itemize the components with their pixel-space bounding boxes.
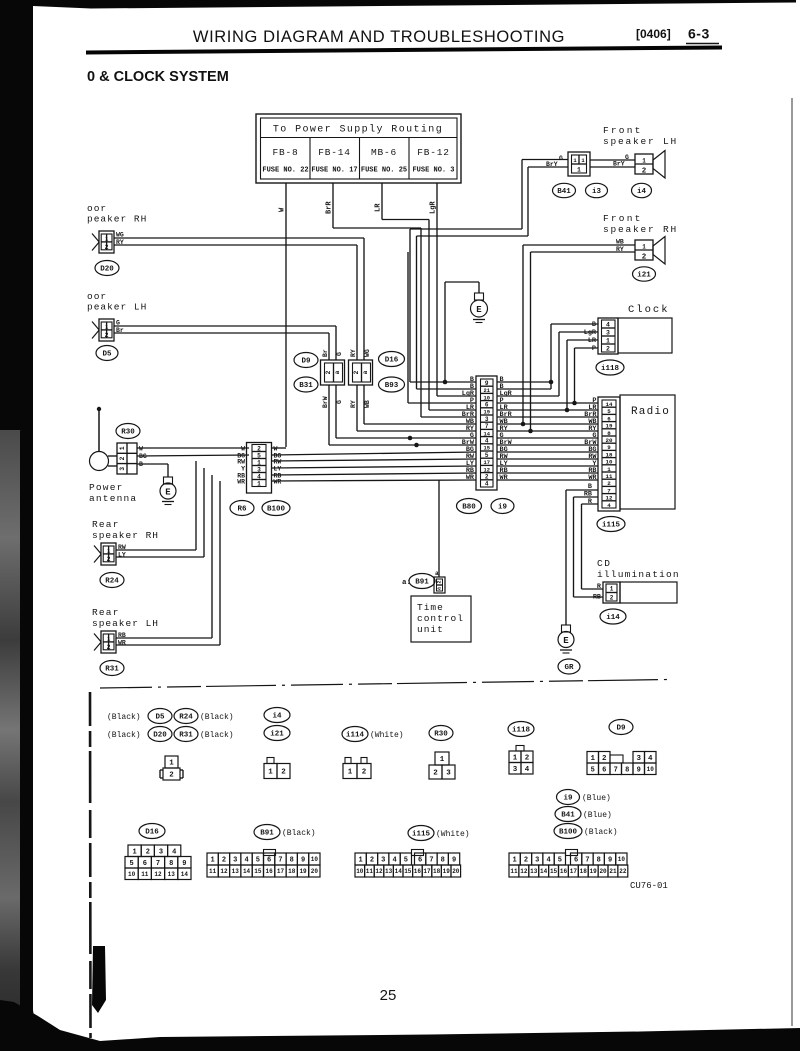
- connector i21 + speaker: [635, 240, 653, 260]
- svg-text:speaker LH: speaker LH: [603, 136, 678, 147]
- svg-text:3: 3: [446, 770, 451, 778]
- svg-text:1: 1: [513, 857, 517, 865]
- svg-text:20: 20: [311, 868, 319, 875]
- svg-text:FUSE NO. 22: FUSE NO. 22: [262, 167, 308, 175]
- svg-text:6: 6: [143, 860, 147, 868]
- connector D16 / B93: [349, 360, 373, 385]
- svg-text:7: 7: [485, 423, 489, 430]
- svg-text:1: 1: [610, 586, 614, 593]
- wire B radio to ground: [566, 489, 598, 491]
- svg-text:5: 5: [256, 857, 260, 865]
- svg-text:3: 3: [513, 766, 518, 774]
- svg-text:D20: D20: [153, 732, 167, 740]
- wire P to clock and radio: [497, 402, 598, 404]
- wire BG B80 to radio: [497, 451, 598, 453]
- connector D5: [96, 346, 118, 361]
- svg-text:i115: i115: [602, 522, 621, 530]
- svg-text:3: 3: [233, 857, 237, 865]
- svg-text:20: 20: [599, 868, 607, 875]
- svg-text:12: 12: [220, 868, 228, 875]
- junction G row: [408, 436, 413, 441]
- svg-text:8: 8: [625, 766, 629, 774]
- wire P to time control unit: [438, 480, 440, 577]
- pinout connector D16: [128, 845, 141, 857]
- wire B row1: [410, 381, 476, 383]
- svg-text:B91: B91: [415, 579, 429, 587]
- wire LgR from fuse FB-12: [436, 183, 438, 396]
- connector R31: [100, 661, 124, 676]
- svg-text:2: 2: [642, 168, 647, 176]
- svg-text:8: 8: [441, 857, 445, 865]
- wire G below D9: [335, 385, 337, 438]
- svg-text:2: 2: [524, 857, 528, 865]
- wire LR from fuse MB-6: [381, 183, 383, 220]
- svg-text:D5: D5: [155, 714, 165, 722]
- svg-text:2: 2: [433, 770, 438, 778]
- svg-text:3: 3: [159, 848, 163, 856]
- wire BrW B80 to radio: [497, 444, 598, 446]
- svg-text:WR: WR: [237, 479, 245, 486]
- svg-text:2: 2: [485, 474, 489, 481]
- power supply routing table: [256, 114, 461, 183]
- svg-text:4: 4: [607, 502, 611, 509]
- svg-text:1: 1: [211, 857, 215, 865]
- svg-text:G: G: [336, 400, 343, 404]
- svg-text:FUSE NO. 3: FUSE NO. 3: [412, 167, 454, 175]
- svg-text:2: 2: [607, 480, 611, 487]
- svg-text:3: 3: [485, 416, 489, 423]
- svg-text:8: 8: [607, 430, 611, 437]
- connector i21: [633, 267, 656, 281]
- wire WB below D16: [363, 385, 365, 424]
- svg-text:17: 17: [483, 460, 489, 466]
- svg-text:5: 5: [591, 766, 595, 774]
- svg-text:2: 2: [257, 445, 261, 452]
- svg-text:GR: GR: [564, 664, 574, 672]
- wire W antenna: [137, 447, 249, 449]
- wire RY B80 to radio: [497, 430, 598, 432]
- svg-text:5: 5: [129, 860, 133, 868]
- svg-text:15: 15: [404, 868, 412, 875]
- clock connector pins: [598, 318, 618, 354]
- svg-text:6: 6: [485, 402, 489, 409]
- wire BrR from fuse FB-14: [332, 183, 334, 228]
- svg-text:LgR: LgR: [430, 201, 438, 214]
- svg-text:25: 25: [380, 987, 397, 1004]
- scan artifact: top edge black strip: [33, 0, 796, 9]
- wires front speaker RH to bus: [523, 244, 635, 246]
- pinout connector B91: [207, 853, 218, 865]
- svg-text:R31: R31: [105, 666, 119, 674]
- svg-text:15: 15: [254, 868, 262, 875]
- connector i4 + speaker: [635, 154, 653, 174]
- svg-text:a: a: [436, 587, 442, 590]
- svg-text:14: 14: [540, 868, 548, 875]
- wire WB row from D16: [364, 423, 476, 425]
- svg-text:11: 11: [366, 868, 374, 875]
- svg-text:18: 18: [606, 451, 613, 458]
- svg-text:RY: RY: [350, 349, 357, 357]
- svg-text:2: 2: [119, 456, 126, 460]
- scan artifact: left black margin bar: [0, 0, 33, 436]
- svg-text:FB-14: FB-14: [318, 147, 351, 158]
- svg-text:9: 9: [607, 444, 611, 451]
- svg-text:12: 12: [375, 868, 383, 875]
- svg-text:1: 1: [513, 754, 518, 762]
- wire B to clock: [497, 381, 551, 383]
- svg-text:B91: B91: [260, 830, 274, 838]
- svg-text:2: 2: [222, 857, 226, 865]
- svg-text:(Black): (Black): [200, 731, 234, 740]
- wire LY row R6 to B80: [272, 466, 476, 468]
- svg-text:2: 2: [362, 769, 367, 777]
- svg-text:14: 14: [395, 868, 403, 875]
- wire LgR to clock: [497, 395, 559, 397]
- pinout connector i118: [516, 746, 524, 752]
- svg-text:1: 1: [359, 857, 363, 865]
- svg-text:D5: D5: [102, 351, 112, 359]
- svg-text:antenna: antenna: [89, 493, 137, 504]
- svg-text:3: 3: [606, 330, 610, 337]
- svg-text:G: G: [625, 154, 629, 161]
- svg-text:W: W: [139, 446, 143, 453]
- dash-dot separator line: [100, 680, 668, 689]
- svg-text:BrR: BrR: [326, 201, 334, 214]
- svg-text:BrY: BrY: [613, 161, 625, 168]
- svg-text:19: 19: [443, 868, 451, 875]
- svg-text:13: 13: [232, 868, 240, 875]
- radio unit: [620, 395, 675, 509]
- svg-text:22: 22: [619, 868, 627, 875]
- wire WR rear speaker LH: [116, 644, 220, 646]
- svg-text:D16: D16: [385, 357, 399, 365]
- svg-text:unit: unit: [417, 624, 444, 635]
- connector i115: [597, 517, 625, 532]
- svg-text:To Power Supply Routing: To Power Supply Routing: [273, 124, 443, 136]
- svg-text:R24: R24: [179, 714, 193, 722]
- svg-text:6: 6: [418, 857, 422, 865]
- svg-text:8: 8: [290, 857, 294, 865]
- svg-text:2: 2: [525, 754, 530, 762]
- connector labels B80 i9: [457, 499, 482, 514]
- connector i14: [600, 609, 626, 624]
- wire WR row R6 to B80: [272, 480, 476, 481]
- svg-text:MB-6: MB-6: [371, 147, 397, 158]
- pinout connector B41/B100/i9: [509, 853, 520, 865]
- pinout connector i114: [345, 758, 351, 764]
- wire B antenna to ground: [137, 463, 168, 465]
- connector B41: [553, 183, 576, 197]
- svg-text:i9: i9: [498, 504, 508, 512]
- svg-text:10: 10: [311, 856, 319, 863]
- svg-text:2: 2: [642, 254, 647, 262]
- ground name GR: [558, 659, 580, 674]
- svg-text:G: G: [336, 352, 343, 356]
- pinout connector D5/D20/R24/R31: [165, 756, 178, 768]
- svg-text:6: 6: [267, 857, 271, 865]
- header rule: [86, 46, 722, 55]
- svg-text:4: 4: [392, 857, 396, 865]
- wire R radio to CD illumination: [582, 503, 599, 505]
- svg-text:14: 14: [181, 871, 189, 878]
- svg-text:2: 2: [281, 769, 286, 777]
- svg-text:a: a: [435, 570, 439, 577]
- scan artifact: torn page edge line: [89, 692, 92, 1038]
- svg-text:WR: WR: [588, 474, 597, 482]
- pinout connector i4/i21: [267, 758, 274, 764]
- svg-text:P: P: [592, 345, 596, 353]
- scan artifact: bottom black band: [0, 1000, 800, 1051]
- svg-text:5: 5: [485, 452, 489, 459]
- svg-text:15: 15: [550, 868, 558, 875]
- svg-text:19: 19: [606, 423, 613, 430]
- svg-text:WR: WR: [466, 474, 475, 482]
- wire RW rear speaker RH: [116, 549, 196, 551]
- wire RB radio to CD illumination: [574, 496, 599, 498]
- svg-text:D20: D20: [100, 266, 114, 274]
- svg-text:B100: B100: [559, 829, 578, 837]
- svg-text:2: 2: [606, 346, 610, 353]
- svg-text:a: a: [362, 370, 369, 374]
- svg-text:(Black): (Black): [107, 713, 141, 722]
- connector i118: [596, 360, 624, 375]
- svg-text:Front: Front: [603, 125, 643, 136]
- svg-text:7: 7: [156, 860, 160, 868]
- connector B80 / i9: [476, 376, 497, 490]
- junction BrW row: [414, 443, 419, 448]
- svg-text:2: 2: [146, 848, 150, 856]
- pinout connector i115: [355, 853, 366, 865]
- pinout connector R30: [435, 752, 449, 765]
- svg-text:17: 17: [277, 868, 285, 875]
- svg-text:16: 16: [266, 868, 274, 875]
- svg-text:i9: i9: [563, 795, 573, 803]
- wire B row2: [417, 388, 477, 390]
- svg-text:2: 2: [610, 595, 614, 602]
- svg-text:i114: i114: [346, 732, 365, 740]
- wire P row: [408, 402, 476, 404]
- wire BG antenna: [137, 455, 249, 456]
- svg-text:2: 2: [370, 857, 374, 865]
- svg-text:1: 1: [577, 167, 581, 174]
- svg-text:6: 6: [574, 857, 578, 865]
- connector R24: [100, 573, 124, 588]
- svg-text:1: 1: [268, 769, 273, 777]
- svg-text:20: 20: [606, 437, 613, 444]
- svg-text:LgR: LgR: [584, 329, 597, 337]
- connector D9 / B31: [321, 360, 345, 385]
- svg-text:speaker RH: speaker RH: [603, 224, 678, 235]
- svg-text:FB-8: FB-8: [272, 147, 298, 158]
- svg-text:19: 19: [483, 410, 489, 416]
- svg-text:i21: i21: [637, 272, 651, 280]
- svg-text:oor: oor: [87, 291, 107, 302]
- svg-text:2: 2: [353, 370, 360, 374]
- svg-text:1: 1: [169, 760, 174, 768]
- svg-text:(Blue): (Blue): [582, 794, 611, 803]
- scan artifact: right page edge line: [791, 98, 793, 1026]
- svg-text:11: 11: [141, 871, 149, 878]
- svg-text:1: 1: [348, 769, 353, 777]
- svg-text:(White): (White): [436, 830, 470, 839]
- svg-text:16: 16: [560, 868, 568, 875]
- svg-text:(Black): (Black): [107, 731, 141, 740]
- wire G row from D9: [336, 437, 476, 439]
- junction front speaker RH WB: [521, 422, 526, 427]
- svg-text:3: 3: [535, 857, 539, 865]
- svg-text:2: 2: [107, 556, 111, 563]
- svg-text:12: 12: [520, 868, 528, 875]
- wire W stub B100 to fuse feed: [272, 447, 286, 449]
- svg-text:W: W: [274, 446, 278, 453]
- svg-text:i115: i115: [412, 831, 431, 839]
- svg-text:7: 7: [585, 857, 589, 865]
- svg-text:WR: WR: [274, 479, 282, 486]
- svg-text:9: 9: [637, 766, 641, 774]
- svg-text:B41: B41: [561, 812, 575, 820]
- ground E antenna: [164, 477, 173, 484]
- svg-text:LY: LY: [274, 466, 282, 473]
- svg-text:6: 6: [607, 415, 611, 422]
- svg-text:4: 4: [485, 438, 489, 445]
- wire LY B80 to radio: [497, 465, 598, 467]
- svg-text:WG: WG: [364, 349, 371, 357]
- wire BrR row: [421, 416, 476, 418]
- svg-text:2: 2: [169, 772, 174, 780]
- svg-text:1: 1: [642, 158, 646, 165]
- svg-text:peaker RH: peaker RH: [87, 214, 147, 225]
- svg-text:Time: Time: [417, 602, 444, 613]
- wire BrW row from D9: [329, 444, 476, 446]
- svg-text:B31: B31: [299, 382, 313, 390]
- svg-text:illumination: illumination: [597, 569, 680, 580]
- svg-text:speaker LH: speaker LH: [92, 618, 159, 629]
- svg-text:B93: B93: [385, 382, 399, 390]
- svg-text:E: E: [563, 636, 569, 646]
- svg-text:(White): (White): [370, 731, 404, 740]
- svg-text:2: 2: [105, 332, 109, 339]
- svg-text:1: 1: [119, 446, 126, 450]
- svg-text:B: B: [592, 321, 596, 329]
- wire LR row: [429, 409, 476, 411]
- svg-text:11: 11: [606, 473, 613, 480]
- svg-text:10: 10: [128, 871, 136, 878]
- svg-text:1: 1: [590, 755, 595, 763]
- svg-text:4: 4: [257, 473, 261, 480]
- svg-text:17: 17: [570, 868, 578, 875]
- svg-text:3: 3: [381, 857, 385, 865]
- svg-text:4: 4: [606, 322, 610, 329]
- svg-text:B100: B100: [267, 506, 286, 514]
- svg-text:18: 18: [580, 868, 588, 875]
- svg-text:i14: i14: [606, 614, 620, 622]
- svg-text:11: 11: [209, 868, 217, 875]
- svg-text:1: 1: [642, 244, 646, 251]
- svg-text:RW: RW: [237, 459, 245, 466]
- svg-text:19: 19: [590, 868, 598, 875]
- svg-text:13: 13: [168, 871, 176, 878]
- wires front speaker LH to bus: [522, 159, 568, 161]
- svg-text:1: 1: [607, 466, 611, 473]
- wire Br door speaker LH: [114, 332, 329, 334]
- svg-text:2: 2: [325, 370, 332, 374]
- svg-text:i3: i3: [592, 188, 602, 196]
- svg-text:3: 3: [636, 755, 641, 763]
- svg-text:9: 9: [452, 857, 456, 865]
- svg-text:7: 7: [614, 766, 618, 774]
- connector D20: [95, 261, 119, 276]
- power antenna connector pins: [117, 443, 137, 474]
- svg-text:WIRING DIAGRAM AND TROUBLESHOO: WIRING DIAGRAM AND TROUBLESHOOTING: [193, 28, 565, 46]
- svg-text:18: 18: [433, 868, 441, 875]
- svg-text:5: 5: [558, 857, 562, 865]
- svg-text:2: 2: [602, 755, 607, 763]
- svg-text:1: 1: [257, 459, 261, 466]
- ground E below radio: [562, 625, 571, 632]
- svg-text:oor: oor: [87, 203, 107, 214]
- svg-text:Y: Y: [241, 466, 245, 473]
- svg-text:6: 6: [602, 766, 606, 774]
- svg-text:R30: R30: [434, 731, 448, 739]
- wire RY below D16: [356, 385, 358, 431]
- svg-text:20: 20: [452, 868, 460, 875]
- wire BrR B80 to radio: [497, 416, 598, 418]
- svg-text:E: E: [165, 488, 171, 498]
- time control unit box: [411, 596, 471, 642]
- wire LgR row: [437, 395, 476, 397]
- connector B41/i3 pair: [568, 152, 590, 176]
- svg-text:4: 4: [172, 848, 176, 856]
- svg-text:9: 9: [608, 857, 612, 865]
- connector i3: [586, 183, 608, 197]
- svg-text:i4: i4: [272, 713, 282, 721]
- connector R6 / B100: [247, 443, 272, 494]
- svg-text:E: E: [476, 305, 482, 315]
- svg-text:(Black): (Black): [282, 829, 316, 838]
- power antenna: [97, 407, 101, 411]
- svg-text:4: 4: [485, 481, 489, 488]
- svg-text:Clock: Clock: [628, 304, 670, 316]
- svg-text:Rear: Rear: [92, 607, 120, 618]
- svg-text:i118: i118: [512, 727, 531, 735]
- svg-text:R6: R6: [237, 506, 247, 514]
- svg-text:10: 10: [647, 766, 655, 773]
- wire W from fuse FB-8: [285, 183, 287, 447]
- svg-text:control: control: [417, 613, 464, 624]
- wire RY row from D16: [357, 430, 476, 432]
- svg-text:Br: Br: [322, 349, 329, 357]
- svg-text:0 & CLOCK SYSTEM: 0 & CLOCK SYSTEM: [87, 69, 229, 85]
- svg-text:12: 12: [483, 467, 489, 473]
- svg-text:CD: CD: [597, 558, 611, 569]
- svg-text:LR: LR: [588, 337, 597, 345]
- scan artifact: bottom-left black streak: [92, 946, 106, 1013]
- svg-text:2: 2: [107, 644, 111, 651]
- svg-text:21: 21: [483, 388, 489, 394]
- svg-text:B41: B41: [557, 188, 571, 196]
- svg-text:W: W: [241, 446, 245, 453]
- svg-text:WR: WR: [500, 474, 509, 482]
- svg-text:Radio: Radio: [631, 406, 670, 418]
- svg-text:10: 10: [606, 459, 613, 466]
- svg-text:3: 3: [257, 466, 261, 473]
- svg-text:13: 13: [530, 868, 538, 875]
- wire G B80 to radio: [497, 437, 598, 439]
- svg-text:Rear: Rear: [92, 519, 120, 530]
- svg-text:5: 5: [404, 857, 408, 865]
- svg-text:5: 5: [607, 408, 611, 415]
- svg-text:8: 8: [597, 857, 601, 865]
